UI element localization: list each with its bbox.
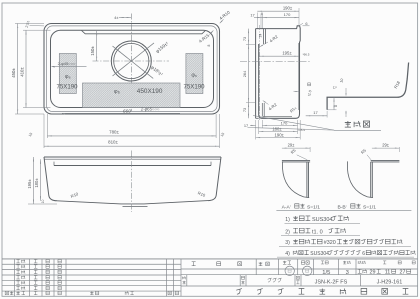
header design (sekkei): [283, 261, 286, 264]
plan view rim inner edge: [46, 26, 217, 112]
svg-text:29: 29: [370, 270, 376, 276]
svg-text:4): 4): [285, 251, 290, 257]
header created date: [358, 261, 361, 264]
svg-text:150±: 150±: [90, 46, 95, 56]
svg-text:6: 6: [261, 12, 263, 16]
header scale (shakudo): [321, 261, 324, 264]
back ledge line: [82, 30, 206, 33]
svg-text:1/5: 1/5: [322, 270, 330, 276]
svg-text:11: 11: [385, 270, 391, 276]
enlarged view title (kakudai-zu): [345, 121, 351, 127]
company name (shigeru kogyo): [236, 289, 242, 295]
corner section bowl radius arc: [283, 161, 310, 197]
svg-text:180±: 180±: [34, 178, 39, 188]
svg-text:24: 24: [259, 34, 263, 38]
dim 17 bottom: [250, 124, 256, 126]
title right block horizontals: [181, 268, 418, 270]
svg-text:660: 660: [123, 108, 131, 114]
sheet thickness leader t1.0: [294, 90, 300, 92]
dim 780: [47, 135, 216, 137]
dim 150 (ledge to circle center): [96, 31, 98, 61]
faucet hole circle inner: [114, 43, 149, 78]
section bottom dims: [255, 120, 257, 140]
svg-text:SUS304: SUS304: [312, 217, 333, 223]
left table bottom row (fugo/teisei): [5, 291, 8, 294]
svg-text:29±: 29±: [288, 142, 296, 147]
detail callout wedge upper line: [253, 116, 334, 131]
vertical centerline plan view: [130, 14, 132, 112]
svg-text:JSN-K-2F FS: JSN-K-2F FS: [315, 279, 348, 285]
section dim row 17/6/170: [254, 17, 262, 19]
svg-text:A-Aʹ: A-Aʹ: [282, 203, 291, 210]
front view centerline: [130, 151, 132, 213]
extension lines bottom: [43, 114, 45, 148]
svg-text:810±: 810±: [108, 140, 118, 145]
svg-text:195±: 195±: [27, 179, 32, 189]
left table verticals: [14, 259, 16, 297]
svg-text:1): 1): [285, 217, 290, 223]
svg-text:4±: 4±: [114, 16, 118, 20]
enlarged dim 8: [333, 97, 335, 110]
title block top line: [2, 258, 418, 260]
front view right wall: [208, 157, 221, 201]
corner section bowl radius arc: [347, 161, 373, 197]
front view inner ledge line: [54, 165, 211, 167]
plan view outer rim rounded rect: [44, 24, 220, 115]
section left dims 73/264/73: [248, 29, 250, 119]
faucet hole circle outer: [111, 41, 151, 81]
svg-text:73: 73: [242, 37, 247, 41]
dim 410 left inner: [25, 30, 27, 107]
svg-text:29±: 29±: [382, 142, 390, 147]
enlarged detail profile: [327, 63, 409, 110]
leader 2-phi45 left hole: [52, 65, 87, 67]
front dim 195: [33, 157, 35, 204]
title right block verticals name band: [186, 275, 188, 286]
svg-text:#320: #320: [324, 240, 336, 246]
svg-text:780±: 780±: [109, 129, 119, 134]
svg-text:3: 3: [346, 270, 349, 276]
corner section top bar: [371, 159, 400, 161]
front view top edge: [44, 156, 221, 158]
dim 170 bottom: [262, 124, 297, 126]
corner section wall: [306, 162, 308, 198]
svg-text:17: 17: [244, 123, 248, 128]
svg-text:410±: 410±: [20, 67, 25, 77]
dim 4 top center: [119, 17, 131, 19]
corner section wall: [370, 162, 372, 198]
section inner right wall line: [298, 43, 300, 110]
section left outer wall: [255, 29, 257, 119]
left table horizontals: [2, 263, 181, 265]
section bottom channel: [261, 103, 263, 117]
left table row texts (heisei/year/month/day): [16, 259, 19, 262]
header approval (shounin): [192, 262, 196, 266]
svg-text:S=1/1: S=1/1: [363, 204, 376, 210]
corner section dim 29: [372, 147, 400, 149]
svg-text:75X190: 75X190: [56, 83, 78, 90]
header angle method: [343, 261, 346, 264]
corner section dim 29: [282, 147, 310, 149]
svg-text:264: 264: [242, 70, 247, 77]
dim 660 and 2-phi65 bottom center: [62, 112, 180, 114]
detail callout wedge lower line: [248, 128, 335, 131]
section profile outline: [256, 26, 301, 119]
horizontal centerline faucet circle: [93, 60, 170, 62]
svg-text:2-φ65○○○: 2-φ65○○○: [140, 107, 160, 112]
header check (kenzu): [259, 262, 263, 266]
name label vertical (meisho): [183, 276, 186, 279]
svg-text:¹15.4: ¹15.4: [298, 128, 305, 132]
plan view bowl edge: [51, 30, 214, 107]
svg-text:73: 73: [242, 108, 247, 112]
title right block verticals header band: [255, 259, 257, 275]
svg-text:17: 17: [313, 110, 318, 115]
product name sink (katakana): [268, 278, 272, 282]
svg-text:195±: 195±: [282, 51, 292, 56]
front view top edge inner: [44, 158, 220, 160]
enlarged dim 17: [306, 115, 327, 117]
svg-text:190±: 190±: [283, 6, 293, 11]
section centerline: [240, 61, 310, 63]
svg-text:17: 17: [250, 12, 254, 17]
diameter dim line phi181 (down-right diagonal): [113, 46, 154, 78]
drain line: [123, 205, 148, 207]
svg-text:φ₆: φ₆: [191, 73, 197, 79]
section dim 190 top: [257, 10, 299, 12]
svg-text:75X190: 75X190: [183, 83, 205, 90]
svg-text:t1. 0: t1. 0: [312, 229, 323, 235]
value date heisei 29-11-27: [358, 269, 362, 273]
svg-text:190±: 190±: [275, 133, 285, 138]
svg-text:450±: 450±: [11, 68, 16, 78]
dim 450 left: [17, 24, 19, 115]
stamp circle design: [285, 266, 294, 275]
front dim 180: [40, 159, 42, 201]
svg-text:27: 27: [400, 270, 406, 276]
svg-text:10: 10: [41, 200, 45, 204]
front view left wall: [44, 157, 57, 201]
section dim 195 mid: [259, 55, 299, 57]
corner section top bar: [282, 159, 310, 161]
diameter dim line phi159 (up-right diagonal): [113, 43, 154, 76]
svg-text:8: 8: [207, 44, 211, 46]
svg-text:170: 170: [284, 12, 291, 17]
svg-text:6: 6: [305, 21, 307, 26]
enlarged dim 10 with arrows: [345, 88, 347, 95]
svg-text:φ₆: φ₆: [114, 89, 120, 95]
svg-text:450X190: 450X190: [137, 88, 163, 95]
hatched opening center 450x190: [83, 83, 181, 108]
svg-text:180±: 180±: [272, 126, 282, 131]
svg-text:SUS304: SUS304: [310, 251, 329, 257]
svg-text:8: 8: [334, 105, 338, 107]
section rim channel verticals: [263, 29, 265, 44]
svg-text:S=1/1: S=1/1: [307, 204, 320, 210]
stamp circle draft: [303, 266, 312, 275]
number label vertical: [296, 276, 299, 279]
underline section labels: [276, 210, 411, 212]
svg-text:φ₆: φ₆: [65, 74, 71, 80]
enlarged view title underline: [334, 129, 381, 131]
dim 180 bottom: [259, 130, 298, 132]
section extension lines top: [256, 13, 258, 29]
section cut dash line left wall: [259, 25, 261, 120]
dim 810: [44, 145, 220, 147]
svg-text:2): 2): [285, 229, 290, 235]
label 6 top right lip: [300, 23, 304, 25]
front view bottom slope left: [57, 201, 208, 204]
product label vertical: [241, 276, 244, 279]
svg-text:B-Bʹ: B-Bʹ: [337, 203, 346, 210]
dim 190 bottom: [256, 137, 301, 139]
svg-text:¹96.5: ¹96.5: [303, 52, 310, 56]
header draft (seizu): [301, 261, 304, 264]
svg-text:J-H29-161: J-H29-161: [377, 279, 403, 285]
hatched hole right 75x190: [186, 54, 203, 94]
hatched hole left 75x190: [59, 54, 76, 94]
svg-text:6: 6: [362, 251, 365, 257]
svg-text:3): 3): [285, 240, 290, 246]
svg-text:2-φ45○○○: 2-φ45○○○: [58, 61, 76, 66]
